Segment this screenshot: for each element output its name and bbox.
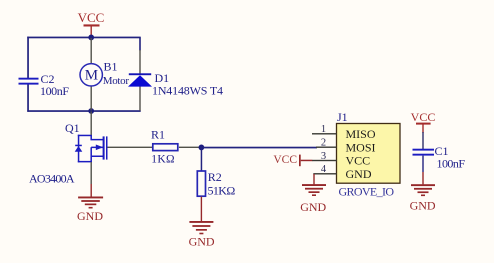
wire left vertical upper (to C2) (27, 37, 29, 79)
wire junction down to R2 (201, 147, 203, 170)
C1 top plate (413, 149, 435, 151)
svg-text:GROVE_IO: GROVE_IO (339, 184, 395, 198)
Q1 drain pin (91, 112, 92, 135)
svg-text:1KΩ: 1KΩ (151, 153, 174, 165)
svg-text:R2: R2 (208, 170, 222, 184)
svg-text:VCC: VCC (346, 154, 371, 168)
diode D1 (128, 37, 223, 110)
J1 body (337, 124, 401, 184)
resistor R1 (151, 128, 200, 166)
svg-text:GND: GND (77, 209, 103, 223)
transistor Q1 (NMOS AO3400A) (29, 112, 152, 186)
resistor R2 (197, 170, 235, 197)
J1 pin 4 line (313, 173, 336, 174)
J1 pin 3 line (312, 160, 337, 161)
svg-text:100nF: 100nF (437, 156, 466, 170)
ground (under R2) (189, 197, 215, 249)
D1 triangle (128, 75, 152, 86)
Q1 channel bar (103, 136, 105, 159)
R1 right pin (179, 147, 201, 148)
capacitor C1 (413, 132, 466, 170)
Q1 bottom stub (78, 161, 92, 163)
svg-text:51KΩ: 51KΩ (208, 183, 236, 197)
svg-text:VCC: VCC (411, 110, 436, 124)
svg-text:4: 4 (321, 164, 327, 175)
B1 pin 1 (top) (91, 38, 92, 63)
Q1 gate bar (106, 136, 108, 159)
C1 bottom plate (413, 154, 435, 156)
svg-text:100nF: 100nF (40, 84, 69, 98)
connector J1 GROVE_IO (312, 110, 400, 198)
ground (under C1) (410, 156, 436, 213)
power port VCC (top left) (78, 10, 105, 37)
wire bottom rail (motor low side net) (27, 110, 140, 112)
svg-text:VCC: VCC (78, 10, 105, 25)
capacitor C2 (19, 72, 70, 98)
Q1 source pin (91, 162, 92, 184)
C2 bottom plate (19, 83, 39, 85)
wire C1 to ground (422, 156, 423, 172)
svg-text:B1: B1 (104, 60, 118, 74)
svg-text:1N4148WS T4: 1N4148WS T4 (152, 83, 223, 97)
ground (under Q1 source) (77, 184, 103, 223)
Q1 bulk arrow line (91, 147, 103, 149)
svg-text:VCC: VCC (273, 154, 297, 166)
B1 circle body (80, 64, 102, 86)
svg-text:MOSI: MOSI (346, 140, 376, 154)
B1 pin 2 (bottom) (91, 86, 92, 110)
wire left vertical lower (from C2) (27, 84, 29, 112)
D1 anode pin (139, 87, 140, 111)
node junction (R1 / R2 / MOSI net) (199, 145, 205, 151)
D1 cathode pin (139, 50, 140, 74)
Q1 body-diode bar (75, 145, 82, 147)
svg-text:Q1: Q1 (65, 121, 80, 135)
D1 cathode wire stub (139, 37, 141, 50)
svg-text:MISO: MISO (346, 127, 376, 141)
Q1 drain step (91, 135, 103, 140)
svg-text:M: M (85, 67, 98, 83)
Q1 gate pin (108, 147, 153, 148)
svg-text:J1: J1 (337, 110, 348, 124)
J1 pin 2 line (316, 147, 337, 148)
ground (under J1 pin 4) (300, 174, 326, 214)
svg-text:R1: R1 (151, 128, 165, 142)
svg-text:3: 3 (321, 151, 326, 162)
C2 top plate (19, 78, 39, 80)
wire top rail (VCC net) (27, 37, 140, 39)
svg-text:1: 1 (321, 124, 326, 135)
R1 body (153, 144, 178, 151)
R2 body (197, 171, 205, 196)
motor B1 (80, 38, 129, 110)
power port VCC (at J1 pin 3) (273, 154, 312, 166)
node junction bottom (B1 / D1 / Q1 drain) (88, 108, 94, 114)
Q1 top stub (78, 135, 92, 137)
Q1 source step (91, 147, 103, 162)
svg-text:GND: GND (410, 198, 436, 212)
wire MOSI rail to J1 pin 2 (203, 147, 317, 149)
svg-text:GND: GND (346, 167, 372, 181)
svg-text:Motor: Motor (103, 75, 130, 87)
svg-text:GND: GND (300, 200, 326, 214)
svg-text:2: 2 (321, 138, 326, 149)
svg-text:GND: GND (189, 234, 215, 248)
Q1 body-diode triangle (75, 146, 83, 152)
D1 cathode bar (129, 73, 151, 75)
J1 pin 1 line (312, 133, 337, 134)
svg-text:AO3400A: AO3400A (29, 172, 75, 186)
Q1 left loop vertical (78, 135, 80, 163)
node junction top (VCC / B1 / D1) (88, 35, 94, 41)
C1 top pin (422, 132, 423, 149)
power port VCC (above C1) (411, 110, 436, 133)
